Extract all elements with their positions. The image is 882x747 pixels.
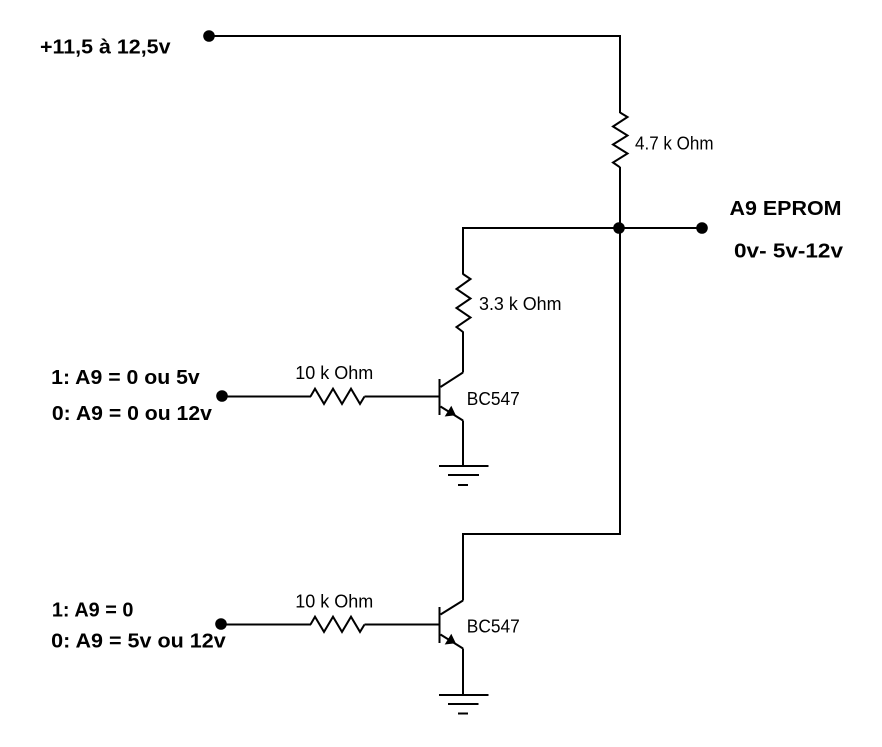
svg-text:+11,5 à 12,5v: +11,5 à 12,5v — [40, 37, 171, 59]
Q2 base bar — [439, 607, 441, 643]
wire input 2 to R4 — [221, 624, 311, 626]
wire R2 bottom to Q1 collector — [462, 332, 464, 373]
resistor R4 10 k Ohm — [311, 617, 365, 632]
Q1 emitter diagonal — [441, 407, 464, 421]
Q1 base bar — [439, 379, 441, 415]
svg-text:BC547: BC547 — [467, 617, 520, 637]
Q2 emitter arrow — [445, 634, 456, 645]
node supply — [203, 30, 215, 42]
ground GND2 — [439, 695, 489, 714]
transistor Q2 BC547 — [440, 601, 464, 649]
wire R1 bottom to junction node — [619, 167, 621, 228]
resistor R1 4.7 k Ohm — [613, 113, 628, 168]
svg-text:3.3 k Ohm: 3.3 k Ohm — [479, 294, 562, 314]
svg-text:4.7 k Ohm: 4.7 k Ohm — [635, 134, 714, 154]
resistor R3 10 k Ohm — [311, 389, 365, 404]
svg-text:1: A9 = 0 ou 5v: 1: A9 = 0 ou 5v — [51, 367, 200, 389]
node junction — [613, 222, 625, 234]
wire R4 to Q2 base — [365, 624, 440, 626]
svg-text:0v- 5v-12v: 0v- 5v-12v — [734, 241, 844, 263]
wire junction to output node — [619, 227, 702, 229]
Q2 emitter diagonal — [441, 635, 464, 649]
svg-text:0: A9 = 5v ou 12v: 0: A9 = 5v ou 12v — [51, 631, 226, 653]
node input 1 — [216, 390, 228, 402]
Q1 collector diagonal — [441, 373, 464, 388]
svg-text:10 k Ohm: 10 k Ohm — [295, 592, 373, 612]
wire R3 to Q1 base — [365, 396, 440, 398]
wire supply to R1 top — [209, 36, 620, 113]
svg-text:A9 EPROM: A9 EPROM — [730, 198, 842, 220]
svg-text:10 k Ohm: 10 k Ohm — [295, 363, 373, 383]
wire input 1 to R3 — [222, 396, 311, 398]
wire Q2 emitter to ground — [462, 649, 464, 696]
wire junction left and down to R2 top — [463, 228, 619, 275]
ground GND1 — [439, 466, 489, 485]
svg-text:1: A9 = 0: 1: A9 = 0 — [52, 600, 133, 622]
transistor Q1 BC547 — [440, 373, 464, 421]
node output A9 — [696, 222, 708, 234]
wire junction down to Q2 collector — [463, 228, 620, 601]
wire Q1 emitter to ground — [462, 421, 464, 467]
node input 2 — [215, 618, 227, 630]
svg-text:BC547: BC547 — [467, 389, 520, 409]
svg-text:0: A9 = 0 ou 12v: 0: A9 = 0 ou 12v — [52, 403, 213, 425]
Q1 emitter arrow — [445, 406, 456, 417]
resistor R2 3.3 k Ohm — [457, 274, 471, 332]
Q2 collector diagonal — [441, 601, 464, 615]
